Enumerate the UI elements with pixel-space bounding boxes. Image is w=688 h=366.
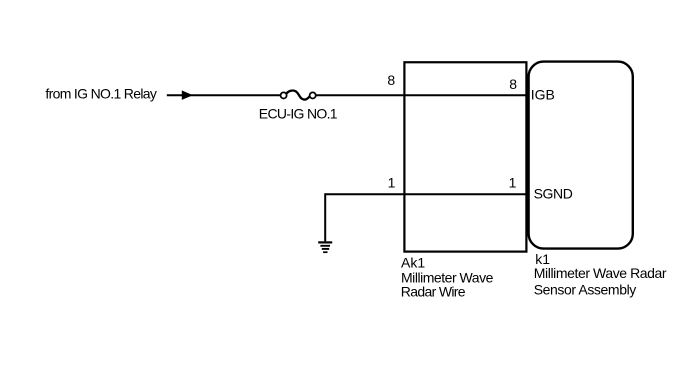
svg-text:Radar Wire: Radar Wire [401,283,466,299]
component Ak1 Millimeter Wave Radar Wire (rectangle) [404,62,526,251]
ground symbol [318,242,332,252]
svg-text:1: 1 [509,175,517,191]
wire: relay feed segment before fuse [167,94,281,96]
svg-text:8: 8 [387,72,395,88]
fuse F1 ECU-IG NO.1 (right terminal circle) [310,92,316,98]
svg-text:Sensor Assembly: Sensor Assembly [534,282,637,298]
svg-text:8: 8 [509,76,517,92]
svg-text:Ak1: Ak1 [401,255,425,271]
fuse F1 ECU-IG NO.1 (left terminal circle) [281,92,287,98]
fuse F1 ECU-IG NO.1 (element squiggle) [286,91,309,100]
svg-text:ECU-IG NO.1: ECU-IG NO.1 [259,106,338,122]
svg-text:SGND: SGND [534,186,573,202]
component k1 Millimeter Wave Radar Sensor Assembly (rounded box) [529,62,633,249]
wire: ground drop vertical [324,193,326,241]
svg-text:1: 1 [388,174,396,190]
svg-text:from IG NO.1 Relay: from IG NO.1 Relay [45,86,156,102]
svg-text:IGB: IGB [531,86,555,102]
wire: fuse to sensor IGB pin [316,94,529,96]
arrow: current direction into IGB wire [182,90,193,100]
wire: SGND horizontal run [325,193,529,195]
svg-text:Millimeter Wave Radar: Millimeter Wave Radar [534,265,667,281]
